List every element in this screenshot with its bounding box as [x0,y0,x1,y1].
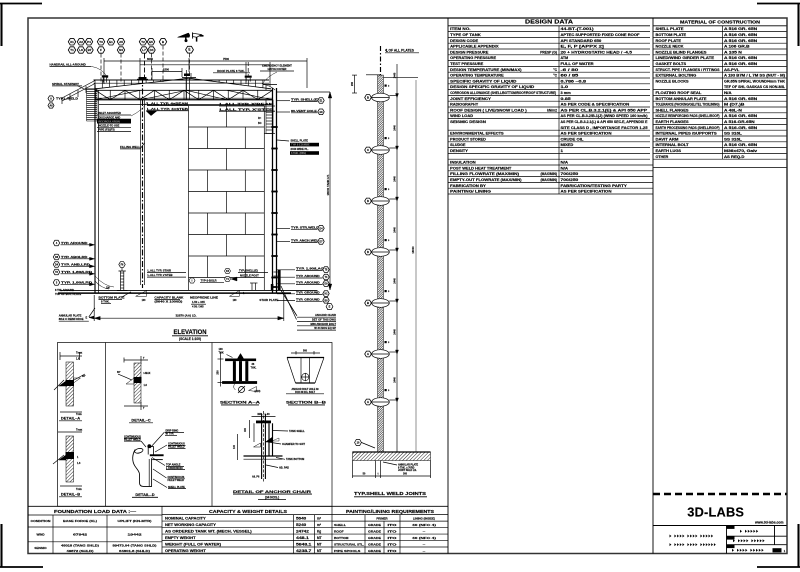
svg-text:FOUNDATION LOAD DATA :—: FOUNDATION LOAD DATA :— [54,509,137,514]
svg-text:MIXED: MIXED [561,143,575,147]
svg-text:APPLICABLE APPENDIX: APPLICABLE APPENDIX [450,45,499,49]
DETAIL-D shell inner line [148,459,150,487]
svg-text:°C: °C [553,74,557,78]
svg-text:A 516 GR. 65N: A 516 GR. 65N [724,39,758,43]
svg-text:2440: 2440 [393,176,396,182]
svg-text:OTHER: OTHER [656,155,670,159]
svg-text:SPECIFIC GRAVITY OF LIQUID: SPECIFIC GRAVITY OF LIQUID [450,79,517,83]
svg-text:BOTTOM ANNULAR PLATE: BOTTOM ANNULAR PLATE [656,97,707,101]
nozzle callout hexagons cluster 1 row 2 [68,47,75,53]
weld joint 7 (A) [372,398,390,407]
svg-text:2440: 2440 [393,227,396,233]
svg-text:SITE CLASS D , IMPORTANCE FACT: SITE CLASS D , IMPORTANCE FACTOR 1.25 [561,126,648,130]
svg-text:8thk C REINFORCE: 8thk C REINFORCE [59,317,84,321]
svg-text:FOR 36 DIA. BOLT: FOR 36 DIA. BOLT [295,391,316,394]
svg-text:N/A: N/A [724,91,733,95]
truss lower boundary line [99,104,271,106]
svg-text:-6 / 80: -6 / 80 [561,68,579,72]
svg-text:E: E [329,305,331,309]
svg-text:A 516 GR. 65N: A 516 GR. 65N [724,33,758,37]
svg-text:AS PER SPECIFICATION: AS PER SPECIFICATION [561,132,613,136]
svg-text:B7: B7 [88,48,92,52]
roof manhole hexagon E [186,46,194,53]
svg-text:2440: 2440 [393,278,396,284]
svg-text:DESIGN CODE: DESIGN CODE [450,39,479,43]
tank right shell [272,88,274,293]
roof dimension lines [104,60,307,62]
svg-text:7500: 7500 [223,57,229,61]
svg-text:GRADE: GRADE [368,529,381,533]
svg-text:DESIGN TEMPERATURE (MIN/MAX): DESIGN TEMPERATURE (MIN/MAX) [450,68,521,72]
svg-text:ANCHOR CHAIR: ANCHOR CHAIR [315,313,336,317]
svg-text:SEISMIC: SEISMIC [34,546,47,550]
svg-text:CAPACITY BLANK: CAPACITY BLANK [154,296,183,300]
svg-text:EXTERNAL BOLTING: EXTERNAL BOLTING [656,74,697,78]
stair handrail sloping [62,81,95,99]
svg-text:A 516 GR. 65N: A 516 GR. 65N [724,97,758,101]
handrail top rail [94,79,270,81]
corner mark top-left [0,3,42,5]
svg-text:ROOF PLATE 6 THK.: ROOF PLATE 6 THK. [217,69,245,73]
FOUNDATION LOAD DATA table [28,505,448,507]
svg-text:A 516 GR. 65N: A 516 GR. 65N [724,27,758,31]
svg-text:STRUCT. PIPE / FLANGES / FITTI: STRUCT. PIPE / FLANGES / FITTINGS [656,68,720,72]
svg-text:3 mm: 3 mm [561,91,571,95]
cone roof slope lines [96,78,190,89]
DETAIL-D top angle flange [150,454,164,456]
svg-text:L7: L7 [142,48,146,52]
svg-text:AS PER SPECIFICATION: AS PER SPECIFICATION [561,190,613,194]
svg-text:SS 316L: SS 316L [724,132,742,136]
svg-text:T1: T1 [70,48,74,52]
shell weld joints centerline [380,46,382,76]
svg-text:TYP. STR.WELD: TYP. STR.WELD [291,225,319,229]
svg-text:PRODUCT STORED: PRODUCT STORED [450,137,486,141]
svg-text:CAPACITY & WEIGHT DETAILS: CAPACITY & WEIGHT DETAILS [209,509,287,514]
svg-text:2440: 2440 [393,125,396,131]
svg-text:X1: X1 [70,40,74,44]
DETAIL-D gusset plate [147,447,149,455]
svg-text:N4: N4 [119,48,123,52]
weld joints foundation block [353,452,431,461]
svg-text:GR.65N SPIRAL WOUND/4mm THK: GR.65N SPIRAL WOUND/4mm THK [724,79,786,83]
svg-text:INSULATION: INSULATION [450,161,476,165]
svg-text:DETAIL OF ANCHOR CHAIR: DETAIL OF ANCHOR CHAIR [233,489,311,494]
svg-text:5640: 5640 [296,516,307,520]
svg-text:60°: 60° [82,375,86,378]
svg-text:BC: BC [258,122,262,125]
svg-text:LINED/WIND GIRDER PLATE: LINED/WIND GIRDER PLATE [656,56,715,60]
svg-text:A: A [50,98,52,101]
bottom left corner curb arc [95,281,109,289]
svg-text:5240: 5240 [296,523,307,527]
svg-text:TYPE OF TANK: TYPE OF TANK [450,33,481,37]
svg-text:TEF OF SHL GASKAS CS NON-MIL: TEF OF SHL GASKAS CS NON-MIL [724,85,785,89]
svg-text:BOTTOM PLATE: BOTTOM PLATE [99,296,125,300]
svg-text:ITO: ITO [388,549,398,553]
svg-text:(SCALE 1:100): (SCALE 1:100) [179,337,201,341]
svg-text:2440: 2440 [393,329,396,335]
svg-text:NOMINAL CAPACITY: NOMINAL CAPACITY [165,516,207,520]
svg-text:DISCHARGE AND: DISCHARGE AND [99,115,121,119]
roof nozzle right stub [245,76,252,78]
svg-text:T3: T3 [99,40,103,44]
weld joint 6 (A) [372,350,390,359]
svg-text:448.1: 448.1 [296,536,309,540]
svg-text:5848.1: 5848.1 [296,542,312,546]
svg-text:DESIGN DATA: DESIGN DATA [525,20,573,26]
svg-text:2440: 2440 [393,377,396,383]
svg-text:M (D7.)B: M (D7.)B [724,103,745,107]
weld joint 2 (C) [372,146,390,155]
svg-text:TYP. ANB.LRD: TYP. ANB.LRD [61,263,90,267]
svg-text:A 516 GR. 65N: A 516 GR. 65N [724,114,758,118]
svg-text:MT: MT [317,542,322,546]
svg-text:LINING (INSIDE): LINING (INSIDE) [413,517,435,521]
svg-text:24742: 24742 [296,529,309,533]
svg-text:INTERNAL BOLT: INTERNAL BOLT [656,143,689,147]
svg-text:OPERATING TEMPERATURE: OPERATING TEMPERATURE [450,74,504,78]
svg-text:AS REQ.D: AS REQ.D [724,155,745,159]
svg-text:ANNULAR PLATE: ANNULAR PLATE [59,314,82,318]
svg-text:TYP. 8 COURSE: TYP. 8 COURSE [291,144,310,147]
svg-text:AS PER CODE & SPECIFICATION: AS PER CODE & SPECIFICATION [561,103,631,107]
svg-text:1500: 1500 [163,68,169,72]
tank diameter dimension [93,295,95,321]
svg-text:A 516-GR-65N: A 516-GR-65N [724,120,756,124]
svg-text:M36 – L.00: M36 – L.00 [257,413,270,416]
svg-text:TYP. 1.80/LRD: TYP. 1.80/LRD [61,270,92,274]
svg-text:19442: 19442 [128,533,143,537]
svg-text:SECTION A–A: SECTION A–A [220,400,260,405]
svg-text:NOZZLE NECK: NOZZLE NECK [656,45,685,49]
svg-text:DESIGN PRESSURE: DESIGN PRESSURE [450,50,489,54]
svg-text:NOZZLE-TO USE: NOZZLE-TO USE [99,124,120,128]
bolr hexagon [189,278,195,283]
svg-text:STAIR PLATE: STAIR PLATE [259,298,278,302]
svg-text:PIPE (F2)(F3): PIPE (F2)(F3) [99,128,115,132]
svg-text:A 48L-N: A 48L-N [724,108,743,112]
filling well top nozzle [139,77,147,79]
nozzle callout hexagons cluster 2 [139,39,146,45]
shell bottom anchor chair marks [278,270,281,291]
svg-text:FULL OF WATER: FULL OF WATER [561,62,595,66]
svg-text:E: E [188,48,190,52]
svg-text:2440 WIDE PL.: 2440 WIDE PL. [291,147,309,151]
svg-text:T2: T2 [141,40,145,44]
svg-text:m³: m³ [317,516,321,520]
svg-text:NET WORKING CAPACITY: NET WORKING CAPACITY [165,523,217,527]
svg-text:OPERATING WEIGHT: OPERATING WEIGHT [165,549,206,553]
right shell callouts lower [277,228,290,230]
SECTION A-A bolt hole symbol [239,387,245,393]
roof peak cap [182,77,196,79]
divider line left of DESIGN DATA [447,18,449,554]
nozzle callout hexagons cluster 1 row 1 [68,39,75,45]
svg-text:WIND: WIND [37,533,46,537]
roof nozzle left stub [102,75,108,77]
corner mark bottom-right [757,566,800,568]
svg-text:EMPTY WEIGHT: EMPTY WEIGHT [165,536,196,540]
svg-text:60 / 85: 60 / 85 [561,74,579,78]
DETAIL-D curb ellipse bump [134,448,143,454]
svg-text:ITO: ITO [388,542,398,546]
svg-text:ENVIRONMENTAL EFFECTS: ENVIRONMENTAL EFFECTS [450,132,504,136]
svg-text:℄ OF ALL PLATES: ℄ OF ALL PLATES [385,49,415,53]
weld joint 5 (B) [372,299,390,308]
DETAIL-B weld detail [58,431,82,433]
svg-text:SHELL: SHELL [334,523,346,527]
svg-text:L.ALL TYP. x'STEB: L.ALL TYP. x'STEB [148,273,173,277]
left hexagon callouts upper [48,96,54,101]
svg-text:E, F, P [APPX 2]: E, F, P [APPX 2] [561,45,604,49]
svg-text:m³: m³ [317,523,321,527]
svg-text:ATM: ATM [561,56,569,60]
svg-text:NEOPRENE LINE: NEOPRENE LINE [190,296,218,300]
svg-text:NOZZLE BLOCKS: NOZZLE BLOCKS [656,79,689,83]
svg-text:N/A: N/A [561,166,569,170]
weld joint 1 (B) [372,93,390,102]
svg-text:TYP. GROUND: TYP. GROUND [296,291,320,295]
svg-text:D4: D4 [150,48,154,52]
svg-text:A 106 GR.B: A 106 GR.B [724,45,751,49]
svg-text:Tmax: Tmax [76,352,83,355]
svg-text:PIPE SPOOLS: PIPE SPOOLS [334,549,360,553]
svg-text:16000 TANK HT.: 16000 TANK HT. [326,174,330,195]
svg-text:60°: 60° [117,371,121,374]
svg-text:200: 200 [351,81,354,86]
svg-text:GRADE: GRADE [368,542,381,546]
svg-text:AS-PVL: AS-PVL [724,68,739,72]
svg-text:6000: 6000 [147,57,153,61]
svg-text:DETAIL–C: DETAIL–C [131,418,150,423]
corner mark top-right [757,3,800,5]
svg-text:TEST PRESSURE: TEST PRESSURE [450,62,484,66]
svg-text:F: F [100,48,102,52]
svg-text:ITO: ITO [388,529,398,533]
svg-text:A 193 B7M / L 7M SS (NUT - M): A 193 B7M / L 7M SS (NUT - M) [724,74,785,78]
svg-text:POST WELD HEAT TREATMENT: POST WELD HEAT TREATMENT [450,166,511,170]
svg-text:49872 (SHLD): 49872 (SHLD) [67,549,94,553]
DETAIL-C weld detail [124,359,148,361]
svg-text:t-MAX: t-MAX [144,372,151,375]
svg-text:E5: E5 [149,40,153,44]
svg-text:DENSITY: DENSITY [450,149,469,153]
shell course plate layout [189,105,265,107]
svg-text:TYP. AROUND: TYP. AROUND [61,241,88,245]
svg-text:E: E [86,316,88,320]
svg-text:TYP-2-BOLR: TYP-2-BOLR [201,278,217,282]
svg-text:TYP. AROUND: TYP. AROUND [296,281,320,285]
svg-text:NOZZLE POST: NOZZLE POST [240,274,259,278]
weld joint 4 (D) [372,248,390,257]
svg-text:16000: 16000 [411,246,415,254]
filling well centerline [142,77,144,288]
callout leader lines to roof [100,54,102,84]
svg-text:A 105 N: A 105 N [724,50,743,54]
svg-text:kN/m2: kN/m2 [547,108,557,112]
svg-text:AS PER CL.B.3.2/B.1(J) (WIND S: AS PER CL.B.3.2/B.1(J) (WIND SPEED 160 k… [561,114,648,118]
title block right cells [727,526,735,529]
filling well pipes [140,100,142,285]
svg-text:PRESP (G): PRESP (G) [540,50,557,54]
svg-text:EMERGENCY ELEMENT: EMERGENCY ELEMENT [262,64,292,68]
svg-text:(MAX/MIN): (MAX/MIN) [541,172,557,176]
svg-text:AB. PAD: AB. PAD [279,466,289,469]
svg-text:TANK BOTTOM: TANK BOTTOM [286,458,304,461]
spiral stairway hatched flight [87,89,98,122]
svg-text:A9. P6: A9. P6 [252,476,260,479]
svg-text:DAVIT ARM: DAVIT ARM [656,137,679,141]
svg-text:W 34 NOS EQ SP: W 34 NOS EQ SP [314,326,336,330]
svg-text:ROOF PLATE: ROOF PLATE [656,39,682,43]
roof support column right [265,100,267,113]
svg-text:300: 300 [403,473,408,476]
svg-text:°C: °C [553,68,557,72]
svg-text:TYP. ANCH.WELD: TYP. ANCH.WELD [291,238,321,242]
nozzle post hexagons [225,268,231,273]
svg-text:64801.8 (SHLD): 64801.8 (SHLD) [119,549,150,553]
svg-text:SHELL PLATE: SHELL PLATE [656,27,684,31]
svg-text:AS ORDERED TANK WT. (MECH. VES: AS ORDERED TANK WT. (MECH. VESSEL) [165,529,252,533]
truss bottom chord [96,99,273,101]
svg-text:A5: A5 [119,40,123,44]
svg-text:20 + HYDROSTATIC HEAD / -4.5: 20 + HYDROSTATIC HEAD / -4.5 [561,50,633,54]
svg-text:SLUDGE: SLUDGE [450,143,466,147]
svg-text:TYP. 1.90/LAG: TYP. 1.90/LAG [296,267,324,271]
roof edge arc right [263,84,275,90]
svg-text:A 516 GR. 65N: A 516 GR. 65N [724,143,758,147]
svg-text:TYP. 1.80/LRD: TYP. 1.80/LRD [61,281,92,285]
handrail posts [94,80,96,89]
svg-text:4238.7: 4238.7 [296,549,312,553]
svg-text:700/250: 700/250 [561,172,579,176]
svg-text:0.85: 0.85 [561,97,571,101]
svg-text:GRADE: GRADE [368,523,381,527]
svg-text:ELEVATION: ELEVATION [174,329,207,336]
svg-text:SPIRAL STAIRWAY: SPIRAL STAIRWAY [52,82,79,86]
truss king post [185,78,187,100]
internal ladder detail [266,113,273,134]
svg-text:N/A: N/A [561,161,569,165]
svg-text:WIND LOAD: WIND LOAD [450,114,474,118]
svg-text:FILLING FLOWRATE (MAX/MIN): FILLING FLOWRATE (MAX/MIN) [450,172,519,176]
svg-text:THK: THK [219,351,224,354]
svg-text:4 50 / 345: 4 50 / 345 [192,305,204,309]
svg-text:DET OF THIS DWG: DET OF THIS DWG [312,318,336,322]
svg-text:MT: MT [317,536,322,540]
svg-text:EARTH FLANGES: EARTH FLANGES [656,120,689,124]
svg-text:FABRICATION BY: FABRICATION BY [450,184,487,188]
svg-text:SHELL PLATE: SHELL PLATE [291,139,309,143]
svg-text:APTEC SUPPORTED FIXED CONE ROO: APTEC SUPPORTED FIXED CONE ROOF [561,33,640,37]
handrail mid rail [94,82,270,84]
svg-text:500: 500 [303,350,308,353]
svg-text:SEISMIC DESIGN: SEISMIC DESIGN [450,120,486,124]
svg-text:3D-LABS: 3D-LABS [687,504,744,519]
svg-text:FILLING WELL: FILLING WELL [120,145,140,149]
svg-text:FILLET WELD: FILLET WELD [168,479,185,482]
svg-text:89473.04 (TANG SHLD): 89473.04 (TANG SHLD) [113,543,157,547]
svg-text:8 THK. (MIN): 8 THK. (MIN) [291,152,306,155]
svg-text:SECTION B–B: SECTION B–B [286,400,326,405]
svg-text:NOZZLE REINFORCING PADS (SHELL: NOZZLE REINFORCING PADS (SHELL/ROOF) [656,114,720,118]
svg-text:80-VENT HOLE: 80-VENT HOLE [291,109,317,113]
svg-text:A 516 GR. 65N: A 516 GR. 65N [724,56,758,60]
svg-text:1: 1 [561,149,564,153]
svg-text:ITO: ITO [388,536,398,540]
svg-text:BASE FORCE (KL): BASE FORCE (KL) [63,519,97,523]
svg-text:MATERIAL OF CONSTRUCTION: MATERIAL OF CONSTRUCTION [680,20,761,25]
svg-text:DETAIL–A: DETAIL–A [61,416,80,421]
anchor chair detail [261,414,263,479]
svg-text:M36 ANCHOR BOLT: M36 ANCHOR BOLT [310,322,336,326]
SECTION A-A built-up beam section [225,359,256,362]
svg-text:TYP./SHELL(E): TYP./SHELL(E) [239,269,258,273]
svg-text:GRADE: GRADE [368,536,381,540]
truss long braces [96,90,141,100]
svg-text:OPERATING PRESSURE: OPERATING PRESSURE [450,56,497,60]
svg-text:(210): (210) [255,390,261,393]
svg-text:Tmax: Tmax [76,429,83,432]
svg-text:700/250: 700/250 [561,178,579,182]
svg-text:40 (NFC 4): 40 (NFC 4) [412,536,436,540]
svg-text:AS PER CL.B.3.2.1(L) & API 650: AS PER CL.B.3.2.1(L) & API 650 SEC.E, AP… [561,120,649,124]
svg-text:48018 (TANG SHLD): 48018 (TANG SHLD) [61,543,99,547]
svg-text:ANCHOR BOLT HOLE 39: ANCHOR BOLT HOLE 39 [291,388,319,391]
svg-text:DESIGN SPECIFIC GRAVITY OF LIQ: DESIGN SPECIFIC GRAVITY OF LIQUID [450,85,535,89]
left lower callouts [53,240,59,246]
ramp slope symbols [136,291,147,297]
svg-text:THK.: THK. [251,367,257,370]
svg-text:NOZZLE BLIND FLANGES: NOZZLE BLIND FLANGES [656,50,707,54]
svg-text:(MAX/MIN): (MAX/MIN) [541,178,557,182]
SECTION A-A dims [220,352,222,387]
svg-text:SHELL FLANGES: SHELL FLANGES [656,108,689,112]
svg-text:EARTH PROCESSING PADS (SHELL/R: EARTH PROCESSING PADS (SHELL/ROOF) [656,126,720,130]
svg-text:32870 (AA) I.D.: 32870 (AA) I.D. [175,314,196,318]
svg-text:A 516-GR. 65N: A 516-GR. 65N [724,126,758,130]
svg-text:INLET ASSORTED: INLET ASSORTED [99,111,122,115]
svg-text:JOINT SHLD LN.: JOINT SHLD LN. [398,469,417,472]
svg-text:Kg: Kg [317,529,321,533]
svg-text:CONDITION: CONDITION [31,519,51,523]
svg-text:PAINTING/LINING REQUIREMENTS: PAINTING/LINING REQUIREMENTS [346,509,434,514]
svg-text:TYP.L.WELD: TYP.L.WELD [56,97,78,101]
right shell top curb detail [263,84,277,86]
svg-text:DETAIL–B: DETAIL–B [61,492,80,497]
svg-text:(34 NOS.): (34 NOS.) [265,496,279,500]
svg-text:2440: 2440 [393,72,396,78]
corner mark bottom-left [0,566,43,568]
svg-text:WEIGHT (FULL OF WATER): WEIGHT (FULL OF WATER) [165,542,221,546]
svg-text:RECIRCULATION: RECIRCULATION [99,119,120,123]
svg-text:INTERNAL PIPES /SUPPORTS: INTERNAL PIPES /SUPPORTS [656,132,717,136]
svg-text:ROOF DESIGN ( LIVE/SNOW LOAD ): ROOF DESIGN ( LIVE/SNOW LOAD ) [450,108,527,112]
svg-text:HATCH COVER: HATCH COVER [268,67,287,71]
svg-text:AS PER CL.B.3.2.1(E) & API 650: AS PER CL.B.3.2.1(E) & API 650 APP [561,108,649,112]
svg-text:A2: A2 [79,40,83,44]
divider line left of MATERIAL table / title block [652,18,654,554]
right shell callouts upper [277,100,290,102]
svg-text:UPLIFT (KN-MTR): UPLIFT (KN-MTR) [118,519,152,523]
svg-text:FABRICATION/TESTING PARTY: FABRICATION/TESTING PARTY [561,184,628,188]
svg-text:PAINTING/ LINING: PAINTING/ LINING [450,190,491,194]
north arrow symbol [178,33,190,37]
svg-text:1.0: 1.0 [561,85,569,89]
title block separator dashed line [653,493,787,495]
svg-text:CORROSION ALLOWANCE (SHELL/BOT: CORROSION ALLOWANCE (SHELL/BOTTOM/ROOF/R… [450,91,556,95]
